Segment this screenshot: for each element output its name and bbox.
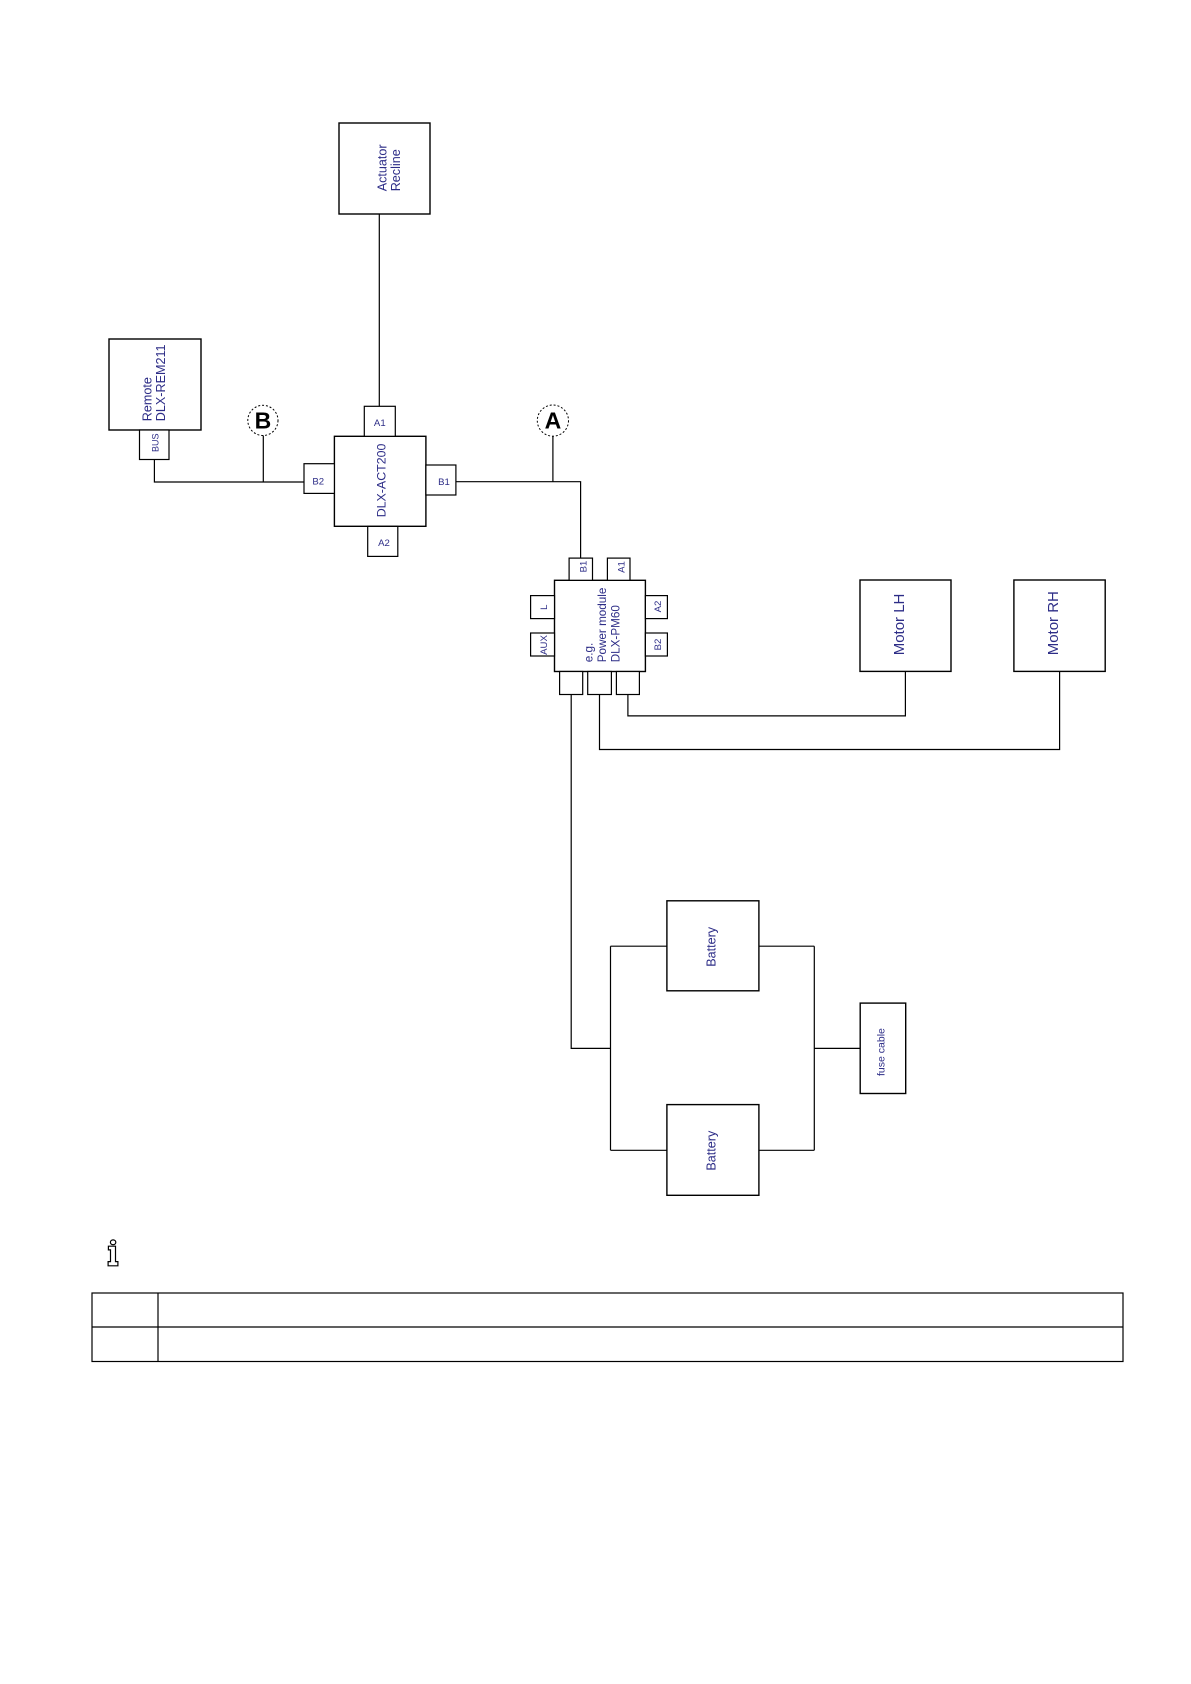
wire node B stem <box>262 436 264 483</box>
wire BUS to ACT200 B2 <box>154 460 304 483</box>
port B1 of ACT200 <box>426 465 456 495</box>
battery 2 box <box>667 1105 759 1196</box>
wire battery2 left lead <box>611 1149 667 1151</box>
motor LH box <box>860 580 951 671</box>
info icon <box>108 1240 118 1266</box>
port A1 of ACT200 <box>364 406 395 436</box>
port bottom-3 of PM60 <box>616 672 639 695</box>
svg-text:Motor RH: Motor RH <box>1045 591 1062 655</box>
wire battery2 right lead <box>759 1149 814 1151</box>
wire right battery bus <box>813 946 815 1150</box>
svg-text:Remote: Remote <box>141 377 155 421</box>
svg-text:B2: B2 <box>653 639 664 651</box>
svg-text:A1: A1 <box>374 418 386 429</box>
svg-text:Power module: Power module <box>596 588 609 663</box>
svg-text:Recline: Recline <box>389 149 403 191</box>
port bottom-2 of PM60 <box>588 672 612 695</box>
wire battery1 right lead <box>759 945 814 947</box>
note table <box>92 1293 1123 1362</box>
node A circle <box>537 405 568 436</box>
svg-text:A2: A2 <box>378 538 390 549</box>
port B2 of ACT200 <box>304 464 334 494</box>
svg-text:Motor LH: Motor LH <box>891 594 908 656</box>
svg-text:A1: A1 <box>617 561 628 573</box>
svg-text:B1: B1 <box>579 561 590 573</box>
wire ACT200 B1 to PM60 B1 <box>456 482 581 558</box>
port BUS on remote <box>140 430 170 460</box>
remote DLX-REM211 box <box>109 339 201 430</box>
svg-text:B1: B1 <box>438 477 450 488</box>
svg-text:BUS: BUS <box>150 433 160 452</box>
svg-text:Actuator: Actuator <box>376 144 390 191</box>
svg-text:AUX: AUX <box>539 635 550 655</box>
wire to fuse cable <box>814 1047 860 1049</box>
power module DLX-PM60 box <box>555 580 646 671</box>
actuator Recline box <box>339 123 430 214</box>
svg-text:L: L <box>539 604 550 610</box>
wire actuator to ACT200 A1 <box>378 214 380 406</box>
motor RH box <box>1014 580 1105 671</box>
wire battery1 left lead <box>611 945 667 947</box>
port L of PM60 <box>531 596 555 619</box>
svg-text:Battery: Battery <box>705 926 719 967</box>
port A1 of PM60 <box>607 558 630 580</box>
svg-text:B: B <box>255 408 272 434</box>
svg-text:fuse cable: fuse cable <box>876 1028 888 1076</box>
DLX-ACT200 box <box>334 436 426 526</box>
svg-text:DLX-PM60: DLX-PM60 <box>610 605 623 663</box>
svg-text:e.g.: e.g. <box>583 643 596 663</box>
wire PM60 port2 to motor RH <box>600 671 1060 749</box>
port B2 of PM60 <box>645 633 667 656</box>
port A2 of PM60 <box>645 596 667 619</box>
battery 1 box <box>667 901 759 991</box>
svg-text:DLX-ACT200: DLX-ACT200 <box>375 444 389 518</box>
wire PM60 port1 to battery bus <box>571 695 610 1049</box>
port A2 of ACT200 <box>368 526 398 556</box>
svg-text:DLX-REM211: DLX-REM211 <box>154 344 168 421</box>
wire left battery bus <box>610 946 612 1150</box>
wire node A stem <box>552 436 554 482</box>
svg-text:B2: B2 <box>312 477 324 488</box>
svg-text:Battery: Battery <box>705 1130 719 1171</box>
port AUX of PM60 <box>531 633 555 656</box>
port bottom-1 of PM60 <box>560 672 583 695</box>
node B circle <box>248 405 278 435</box>
port B1 of PM60 <box>569 558 592 580</box>
fuse cable box <box>860 1003 906 1093</box>
wire PM60 port3 to motor LH <box>628 671 906 716</box>
svg-text:A: A <box>545 408 562 434</box>
svg-text:A2: A2 <box>653 601 664 613</box>
